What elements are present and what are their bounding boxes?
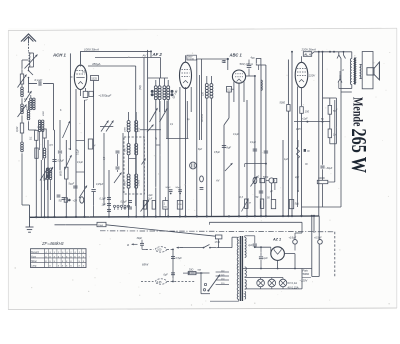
svg-text:6000: 6000 [43, 110, 45, 116]
screen rail 450uA [88, 62, 131, 66]
svg-text:10000: 10000 [318, 177, 325, 180]
svg-text:0,05: 0,05 [296, 129, 301, 131]
ABC1 pins [234, 75, 256, 217]
svg-text:8µF: 8µF [198, 149, 203, 151]
svg-text:ZF=468kHz: ZF=468kHz [41, 241, 65, 246]
ACH1 grid wire [70, 53, 80, 150]
elco C37 [200, 176, 204, 189]
label 65W [142, 263, 149, 267]
svg-text:≈1500µµF: ≈1500µµF [99, 94, 112, 98]
bank wires [31, 95, 51, 217]
svg-text:0,1µF: 0,1µF [250, 142, 257, 144]
resistor R22 1M [328, 114, 337, 144]
svg-text:0,1µF: 0,1µF [77, 162, 84, 164]
selector knife [207, 275, 220, 292]
mid link wire [160, 101, 188, 217]
rail to mains [55, 222, 216, 236]
svg-text:1525: 1525 [91, 77, 97, 80]
svg-text:17500: 17500 [139, 179, 141, 186]
cap C51 1uF [259, 247, 268, 268]
voltage selector taps [216, 270, 229, 284]
svg-text:0,5µF: 0,5µF [121, 201, 128, 204]
svg-text:50µF: 50µF [166, 187, 172, 189]
cap C22 30uF [320, 166, 332, 180]
svg-text:6µF: 6µF [164, 273, 169, 276]
svg-text:Lang: Lang [31, 266, 37, 268]
transformer bottom wire [341, 62, 352, 92]
dial cord lower [141, 279, 195, 284]
svg-text:5(a): 5(a) [295, 204, 299, 206]
volume pot [251, 175, 277, 186]
wire to bus [22, 153, 30, 217]
dial cord upper [146, 247, 173, 252]
svg-text:1740: 1740 [215, 241, 221, 244]
dial lamp LP3 [279, 278, 287, 289]
svg-text:0,1µF: 0,1µF [100, 198, 107, 201]
svg-text:3000: 3000 [44, 175, 46, 181]
pickup a arrow [127, 243, 138, 247]
bandfilter coil L9 [163, 86, 166, 100]
svg-text:4V 0,15A: 4V 0,15A [288, 285, 299, 289]
arrow mark 7 [142, 159, 146, 165]
speaker cone [374, 62, 379, 80]
wave switch S1 [28, 67, 33, 78]
svg-text:100V,30mA: 100V,30mA [84, 47, 99, 51]
tube ABC1 envelope [232, 70, 245, 83]
svg-text:1µF: 1µF [102, 204, 107, 207]
HT rail 268 [243, 267, 312, 270]
transformer core [240, 236, 242, 301]
svg-text:0,65: 0,65 [157, 281, 162, 284]
wire col 123 [122, 133, 124, 205]
band switch arrows [150, 108, 168, 122]
svg-text:2µF: 2µF [247, 244, 253, 247]
aerial series switch [25, 84, 32, 111]
transformer secondary heater [245, 267, 247, 277]
wire x297 low [297, 140, 299, 207]
bus junction dots [35, 215, 315, 218]
svg-text:50µF: 50µF [176, 187, 182, 189]
AZ1 wires [278, 254, 295, 269]
speaker bottom rail [339, 83, 352, 89]
short ties [76, 141, 160, 173]
svg-text:2µF: 2µF [294, 177, 300, 179]
coil L2 [21, 84, 24, 97]
AL4 electrodes [297, 56, 315, 82]
cap C36 50uF [176, 187, 182, 194]
svg-text:20Ω: 20Ω [188, 268, 194, 271]
svg-text:A.F.4.A: A.F.4.A [201, 114, 204, 123]
wire to C1 [29, 78, 38, 84]
resistor R21 5000 [280, 60, 291, 218]
junction contact row [113, 205, 129, 210]
label sprinkle 4 [214, 134, 289, 193]
scan frame right edge [396, 28, 398, 308]
svg-text:8µF: 8µF [227, 146, 232, 150]
tube ACH1 envelope [74, 65, 86, 89]
tube AF2 envelope [180, 62, 192, 88]
padder trimmer box [91, 76, 99, 189]
tube AL4 envelope [295, 62, 308, 87]
mid link 129 [140, 125, 161, 133]
svg-text:AZ 1: AZ 1 [272, 238, 281, 242]
bottom right corner [312, 242, 319, 277]
cap C3 [46, 175, 50, 177]
label 1500uuF [99, 94, 112, 98]
resistor R10 0.3M [227, 86, 234, 92]
svg-text:ACH 1: ACH 1 [52, 53, 67, 58]
ground symbol [26, 217, 34, 232]
tap Y lower [338, 71, 342, 83]
grid loop top link [323, 97, 337, 99]
coil bank L12 pair [38, 120, 44, 132]
bank switch arrows [63, 121, 72, 170]
primary bottom wire [210, 299, 239, 301]
svg-text:500Ω: 500Ω [303, 272, 310, 276]
right vert 311 [311, 216, 313, 242]
elco C41 [314, 216, 322, 277]
cap C32 [59, 198, 71, 203]
right dashed vert [334, 232, 336, 277]
svg-text:6000: 6000 [60, 170, 63, 176]
IFT1 wires [129, 112, 137, 217]
label AV2 [215, 179, 220, 183]
dial lamp LP1 [257, 278, 265, 289]
grid feed wire [43, 84, 55, 218]
selector left wires [188, 272, 211, 294]
svg-text:0,1µF: 0,1µF [78, 148, 80, 155]
svg-text:5µµF: 5µµF [69, 183, 75, 186]
wire AV drop [138, 58, 160, 218]
IFT1 coils mid [127, 144, 138, 155]
cap stack C31 [121, 201, 133, 211]
cap C11 8uF [222, 146, 232, 150]
IFT2 label [202, 91, 205, 96]
resistor R37 [289, 200, 299, 209]
AZ1 filament [274, 248, 281, 254]
resistor R32 [163, 197, 168, 217]
resistor extra box [88, 139, 96, 149]
svg-text:ABC 1: ABC 1 [229, 52, 243, 57]
band switch left arrows [100, 121, 114, 132]
transformer primary [237, 237, 239, 299]
coil L3 [18, 104, 27, 117]
cap C4 [69, 183, 78, 188]
svg-text:220V,36mA: 220V,36mA [301, 48, 317, 52]
ACH1 electrodes [76, 64, 86, 84]
tap label 3 [342, 68, 344, 72]
zigzag resistor R13 [297, 140, 300, 192]
label sprinkle 3 [148, 118, 203, 197]
svg-text:110: 110 [202, 91, 205, 96]
HT rail 247 [254, 246, 271, 253]
svg-text:30µF: 30µF [137, 237, 143, 240]
resistor R2 [15, 123, 24, 133]
switch arrow SW2 [40, 167, 53, 181]
dial lamp LP2 [268, 278, 276, 289]
scan speckle noise [15, 35, 391, 306]
wire [21, 133, 23, 142]
coil bottom wires [156, 100, 168, 218]
resistor R34 [267, 197, 276, 209]
wire x173 [172, 249, 174, 282]
grid loop right [330, 98, 337, 144]
label 1 50 right [173, 89, 179, 96]
svg-text:1µF: 1µF [123, 207, 128, 210]
output transformer secondary [360, 65, 361, 79]
pot arrow [225, 163, 233, 171]
svg-text:265 W: 265 W [346, 129, 369, 174]
svg-text:0,5mA: 0,5mA [188, 58, 195, 61]
svg-text:a: a [127, 243, 129, 247]
pot feed wire [245, 163, 267, 167]
wire x292 screen [291, 51, 293, 217]
cap C2 [52, 160, 64, 163]
wire x274 [272, 183, 275, 200]
cap C12 [247, 57, 256, 77]
svg-text:2000: 2000 [125, 126, 127, 133]
label sprinkle 6 [24, 99, 62, 116]
cap C35 50uF [166, 187, 173, 194]
cathode resistor R3 [83, 91, 93, 102]
svg-text:9000: 9000 [125, 180, 127, 186]
transformer secondary HT [245, 237, 246, 257]
anode rail 100V30mA [80, 47, 151, 64]
svg-text:5000: 5000 [263, 177, 269, 179]
cap C61 [164, 273, 176, 276]
resistor R30 [141, 200, 150, 212]
svg-text:6V 0,1A: 6V 0,1A [288, 281, 298, 285]
det caps [253, 149, 268, 193]
label 1 50 [171, 90, 178, 100]
wire col 147 [147, 50, 149, 217]
resistor R1 [18, 74, 27, 88]
resistor R31 [147, 198, 156, 210]
resistor R23 10000 [317, 177, 335, 207]
resistor R6 6000 [60, 140, 69, 217]
transformer secondary aux [245, 291, 246, 299]
antenna symbol [21, 34, 36, 52]
svg-text:0,1µF: 0,1µF [233, 134, 240, 136]
svg-text:0,03: 0,03 [15, 126, 19, 132]
right vert 334 [334, 100, 336, 182]
svg-text:2µF: 2µF [147, 198, 153, 201]
cap C7 [58, 120, 62, 170]
L1 adjust arrow [25, 55, 38, 69]
resistor R35 [240, 196, 252, 212]
resistor R33 [177, 201, 182, 210]
speaker magnet [367, 68, 374, 75]
cap C50 2uF [247, 244, 257, 247]
svg-text:Fato: Fato [303, 269, 309, 273]
resistor R5 [35, 143, 38, 158]
wire col48 [47, 140, 49, 217]
table title [41, 241, 65, 246]
coil L6 [43, 140, 46, 217]
dial rail top [245, 276, 283, 279]
wire col 104 [103, 133, 105, 205]
AL4 pins down [298, 87, 302, 141]
wire [21, 98, 23, 104]
fuse box [215, 235, 222, 248]
frequency table [31, 249, 87, 268]
rail AV [95, 50, 161, 57]
svg-text:0,5µF: 0,5µF [176, 257, 183, 260]
svg-text:1µF: 1µF [263, 257, 268, 260]
wire [21, 115, 23, 123]
svg-text:AL 4: AL 4 [304, 52, 311, 56]
output transformer core [353, 58, 356, 85]
wire [84, 100, 86, 217]
ACH1 pins down [76, 88, 86, 217]
bandfilter coil L7 [154, 86, 157, 100]
wire x283 [282, 140, 284, 217]
tube AZ1 label [272, 238, 281, 242]
resistor R40 20ohm [183, 268, 203, 274]
speaker wires [360, 65, 363, 79]
resistor R7 [43, 129, 46, 140]
chassis dashdot [100, 231, 335, 232]
AF2 side wire [196, 59, 198, 217]
connector jack [190, 162, 197, 169]
svg-text:M: M [249, 203, 251, 205]
scan frame left edge [7, 31, 9, 310]
svg-text:220V: 220V [308, 74, 315, 78]
svg-text:MA: MA [198, 268, 202, 271]
tube ACH1 label [52, 53, 67, 58]
svg-text:Mittel: Mittel [31, 260, 37, 263]
tube ABC1 label [228, 52, 243, 70]
wire 322 down [322, 122, 324, 165]
svg-text:0,25µF: 0,25µF [96, 184, 104, 186]
svg-text:15kΩ: 15kΩ [98, 225, 104, 227]
label sprinkle 1 [38, 127, 104, 186]
det wires [255, 65, 266, 217]
AL4 rating [301, 48, 317, 52]
transformer secondary dial [245, 280, 247, 290]
label AF4A [201, 114, 204, 123]
AL4 label box [303, 52, 311, 57]
IFT2 coil B [210, 84, 213, 99]
coil top wires [148, 78, 169, 86]
scan frame top edge [8, 28, 397, 30]
svg-text:+20: +20 [73, 200, 78, 203]
svg-text:Bereich: Bereich [31, 251, 40, 254]
scan frame bottom edge [8, 308, 397, 310]
label sprinkle 2 [104, 126, 141, 186]
right horizontal 207 [302, 92, 342, 207]
output transformer primary [350, 59, 351, 85]
svg-text:~220V: ~220V [300, 279, 308, 283]
pickup cap [137, 237, 148, 250]
transformer top wire [351, 52, 353, 59]
capacitor C1 0.1uF [35, 78, 43, 86]
trimmer pads [151, 90, 174, 96]
coil bank L11 pair [27, 98, 36, 110]
svg-text:0,1: 0,1 [30, 136, 33, 140]
elco C33 [73, 197, 84, 203]
label Fato [300, 269, 312, 283]
speaker top rail [312, 51, 352, 54]
svg-text:+0,5µF: +0,5µF [314, 237, 322, 240]
svg-text:AV: AV [215, 179, 220, 183]
svg-text:≈30µF: ≈30µF [325, 167, 332, 170]
label 50V19mA [240, 62, 253, 66]
right vert 322 [322, 52, 324, 122]
det coil [261, 80, 262, 90]
AF2 electrodes [182, 55, 190, 89]
svg-text:+2µF: +2µF [302, 118, 308, 121]
tube AF2 label [152, 52, 163, 57]
chassis bus [30, 216, 320, 217]
label sprinkle 5 [294, 109, 338, 179]
avc wire [246, 100, 248, 217]
svg-text:MΩ: MΩ [164, 207, 168, 209]
svg-text:100: 100 [157, 249, 162, 252]
svg-text:150: 150 [305, 111, 310, 114]
grid rail 121 [294, 118, 330, 123]
label 01uF rot [78, 148, 80, 155]
svg-text:5000: 5000 [280, 102, 286, 105]
wire col 109 [108, 170, 110, 217]
wire right of ACH1 [131, 66, 136, 206]
svg-text:2µF: 2µF [148, 195, 154, 197]
resistor R12 [256, 59, 261, 71]
switch arrow SW3 [79, 186, 87, 199]
mains switch [177, 237, 238, 249]
mark 30 [304, 149, 311, 153]
resistor R4 [30, 130, 39, 217]
svg-text:AF 2: AF 2 [152, 52, 163, 57]
variable inductor L1 [29, 53, 34, 68]
coil bank L13 pair [44, 168, 52, 181]
right vert 314 [313, 216, 315, 233]
ABC1 grid rail [197, 58, 229, 63]
cap stack C30 [100, 198, 112, 212]
IFT2 coil A [205, 84, 208, 99]
IFT2 wires [202, 59, 212, 217]
bandfilter coil L8 [158, 86, 161, 100]
IFT1 dashed box [124, 137, 144, 194]
tube AZ1 envelope [271, 247, 285, 261]
tap Y upper [337, 51, 346, 62]
lamp labels [288, 281, 299, 289]
resistor R24 50 [328, 98, 336, 114]
dial rail bottom [245, 269, 302, 289]
svg-text:(50): (50) [138, 85, 142, 90]
AF2 rating box [187, 55, 197, 61]
speaker frame [362, 52, 373, 89]
bank caps [57, 195, 66, 199]
bandfilter coil L10 [167, 86, 170, 100]
left branch wire [22, 60, 29, 74]
svg-text:4µµ: 4µµ [251, 57, 256, 60]
coil L4 [21, 142, 24, 152]
right vert 318 [318, 51, 320, 217]
cap C60 [171, 257, 182, 260]
resistor R36 [256, 196, 264, 208]
brand Mende [350, 97, 366, 126]
series coil L5 [27, 110, 36, 130]
IFT1 trimmer caps [114, 151, 122, 183]
ABC1 electrodes [235, 74, 243, 82]
svg-text:1µF: 1µF [284, 159, 289, 161]
ABC1 jog wire [224, 92, 229, 217]
svg-text:Mende: Mende [350, 97, 366, 126]
cap C6 [91, 190, 95, 218]
AF2 pins down [180, 75, 200, 217]
IFT1 coils lower [127, 174, 138, 188]
